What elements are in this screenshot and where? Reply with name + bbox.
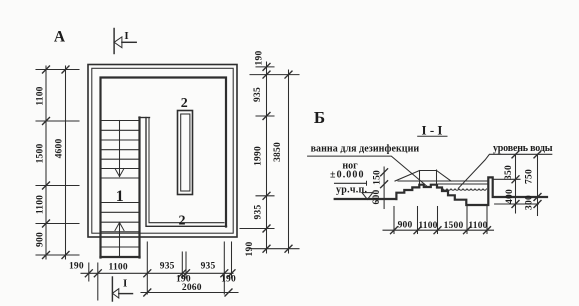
svg-text:935: 935 — [253, 87, 263, 102]
bath slot outer — [178, 111, 193, 195]
left chain slashes — [43, 66, 70, 259]
svg-text:1100: 1100 — [36, 195, 46, 214]
right chain slashes — [263, 63, 292, 252]
svg-text:935: 935 — [201, 262, 216, 272]
svg-text:190: 190 — [255, 51, 265, 66]
bottom chain slashes — [85, 270, 235, 277]
svg-text:1990: 1990 — [254, 146, 264, 166]
svg-text:190: 190 — [221, 275, 236, 285]
trough lining 2 inner — [149, 118, 224, 223]
left dim chain lines — [45, 66, 47, 259]
svg-text:1100: 1100 — [36, 86, 46, 105]
section marker bottom — [112, 277, 132, 301]
svg-text:2: 2 — [179, 214, 186, 229]
outer wall inner contour — [92, 68, 233, 233]
svg-text:I: I — [124, 30, 128, 42]
partition top cap — [139, 117, 150, 119]
svg-text:750: 750 — [525, 169, 535, 184]
svg-text:935: 935 — [160, 262, 175, 272]
stair centerline upper with down arrow — [119, 121, 121, 177]
svg-text:3850: 3850 — [273, 142, 283, 162]
svg-text:1100: 1100 — [418, 221, 437, 231]
stair bottom edge — [101, 256, 140, 258]
trough lining 2 outer — [146, 118, 227, 227]
svg-text:2060: 2060 — [182, 283, 202, 293]
bath rim line — [398, 180, 488, 182]
floor level mark triangle — [362, 193, 373, 200]
svg-text:190: 190 — [245, 242, 255, 257]
section profile: steps, bath, right wall, right floor — [396, 177, 547, 205]
svg-text:ванна для дезинфекции: ванна для дезинфекции — [311, 144, 420, 155]
svg-text:1500: 1500 — [36, 144, 46, 164]
svg-text:600: 600 — [372, 190, 382, 205]
outer wall contour — [88, 65, 237, 238]
leader line 1 — [308, 156, 428, 186]
svg-text:Б: Б — [314, 108, 325, 127]
svg-text:900: 900 — [398, 221, 413, 231]
svg-text:1100: 1100 — [109, 263, 128, 273]
tick at 179.3 — [493, 178, 520, 180]
left vertical dim of section — [383, 167, 385, 209]
svg-text:190: 190 — [69, 262, 84, 272]
right chain extension ticks — [240, 67, 299, 249]
svg-text:I: I — [123, 278, 127, 290]
svg-text:1: 1 — [116, 188, 124, 205]
svg-text:400: 400 — [505, 189, 515, 204]
stair centerline lower with up arrow — [119, 223, 121, 258]
interior wall face — [101, 78, 227, 258]
partition wall (stair right wall) — [138, 118, 140, 258]
svg-text:350: 350 — [504, 165, 514, 180]
right vertical dims of section — [515, 154, 517, 213]
left chain extension ticks — [36, 70, 79, 256]
bottom dim chain 2 (2060) — [141, 292, 238, 294]
svg-text:150: 150 — [373, 170, 383, 185]
zero level line — [335, 182, 367, 184]
svg-text:I - I: I - I — [422, 123, 443, 138]
svg-text:А: А — [54, 29, 66, 46]
svg-text:1100: 1100 — [468, 221, 487, 231]
svg-text:1500: 1500 — [444, 221, 464, 231]
stair treads — [101, 121, 140, 248]
bottom chain extension lines — [89, 242, 232, 300]
water surface wavy line — [443, 189, 487, 190]
bath rim inner line — [438, 183, 488, 185]
svg-text:уровень воды: уровень воды — [493, 143, 553, 154]
bottom dim chain 1 — [81, 272, 233, 274]
bath side elevation (canopy) — [395, 171, 451, 182]
svg-text:4600: 4600 — [55, 139, 65, 159]
svg-text:±0.000: ±0.000 — [330, 169, 364, 180]
svg-text:935: 935 — [254, 205, 264, 220]
floor line left — [335, 198, 397, 200]
svg-text:300: 300 — [525, 195, 535, 210]
bath slot inner — [181, 114, 190, 191]
section bottom dim chain — [383, 229, 494, 231]
svg-text:900: 900 — [36, 232, 46, 247]
canopy posts — [419, 171, 421, 185]
svg-text:2: 2 — [181, 96, 188, 111]
right dim chain lines — [266, 62, 268, 253]
section marker top — [114, 29, 136, 54]
tick at 204 — [495, 203, 539, 205]
